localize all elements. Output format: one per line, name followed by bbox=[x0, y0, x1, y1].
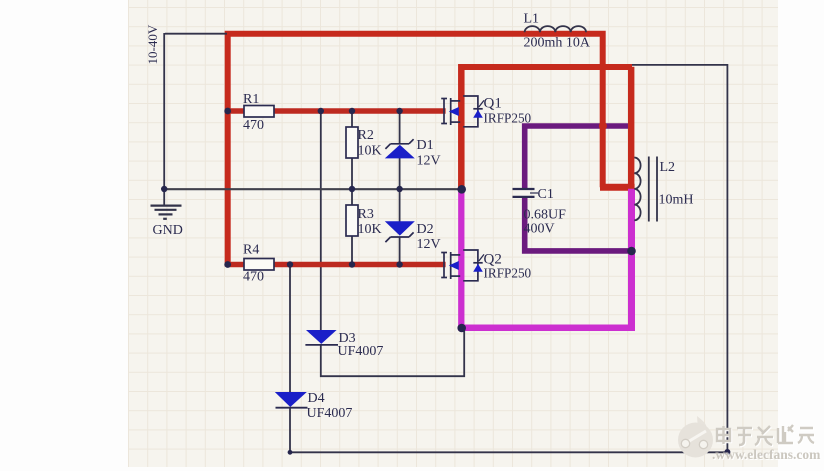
svg-text:200mh 10A: 200mh 10A bbox=[524, 36, 591, 51]
svg-text:470: 470 bbox=[243, 118, 264, 133]
svg-text:10K: 10K bbox=[358, 222, 382, 237]
svg-text:12V: 12V bbox=[417, 154, 441, 169]
svg-text:R3: R3 bbox=[358, 207, 374, 222]
svg-text:D2: D2 bbox=[417, 222, 434, 237]
svg-text:IRFP250: IRFP250 bbox=[484, 266, 532, 281]
svg-text:0.68UF: 0.68UF bbox=[524, 208, 567, 223]
svg-text:UF4007: UF4007 bbox=[307, 406, 353, 421]
svg-text:R4: R4 bbox=[243, 243, 259, 258]
svg-text:L2: L2 bbox=[660, 160, 676, 175]
svg-text:10K: 10K bbox=[358, 144, 382, 159]
svg-text:400V: 400V bbox=[524, 222, 555, 237]
svg-text:IRFP250: IRFP250 bbox=[484, 111, 532, 126]
svg-text:12V: 12V bbox=[417, 237, 441, 252]
svg-text:L1: L1 bbox=[524, 12, 540, 27]
svg-text:R2: R2 bbox=[358, 128, 374, 143]
svg-text:R1: R1 bbox=[243, 92, 259, 107]
svg-text:10-40V: 10-40V bbox=[145, 24, 160, 64]
svg-text:GND: GND bbox=[153, 223, 183, 238]
svg-text:UF4007: UF4007 bbox=[338, 344, 384, 359]
svg-text:C1: C1 bbox=[538, 187, 554, 202]
svg-text:10mH: 10mH bbox=[659, 193, 694, 208]
svg-text:D1: D1 bbox=[417, 138, 434, 153]
svg-text:470: 470 bbox=[243, 270, 264, 285]
svg-text:.www.elecfans.com: .www.elecfans.com bbox=[712, 447, 821, 462]
svg-text:D4: D4 bbox=[308, 391, 325, 406]
svg-text:Q1: Q1 bbox=[484, 96, 502, 112]
